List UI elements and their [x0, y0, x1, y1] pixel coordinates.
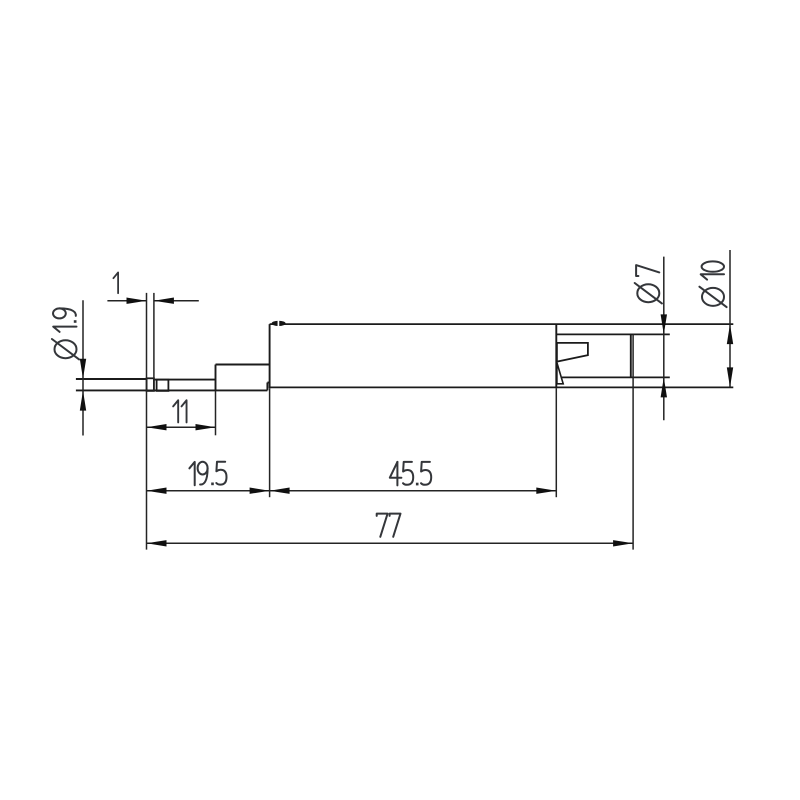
- dimension 19.5 : dimension line and arrows: [147, 490, 270, 492]
- main body right face / connector left face: [555, 324, 557, 388]
- dimension diameter 7 : text: [635, 265, 662, 303]
- body and connector top outline (with diameter-10 extension): [270, 323, 734, 325]
- connector bore right face: [630, 334, 632, 377]
- extension line at part start x=146.5 (dims 1, 11, 19.5, 77): [146, 293, 148, 550]
- tip collar (1 mm ring): [147, 378, 154, 391]
- connector bore bottom line (diameter 7, with extension): [562, 376, 670, 378]
- crimp sleeve behind collar: [157, 380, 169, 391]
- dimension 77 : dimension line and arrows: [147, 542, 634, 544]
- dimension diameter 10 : text: [699, 261, 726, 307]
- neck tube left face: [215, 365, 217, 392]
- connector bore top line (diameter 7, with extension): [556, 333, 670, 335]
- dimension diameter 10 : dimension line and arrows: [729, 250, 731, 387]
- dimension 77 : text: [377, 514, 401, 537]
- dimension 45.5 : text: [390, 462, 431, 486]
- extension line below body left face x=269.6 (dims 19.5/45.5): [269, 388, 271, 497]
- extension line at part right end x=633.1 (dim 77): [632, 334, 634, 549]
- neck-to-body notch horizontal: [267, 382, 269, 384]
- latch tab inside connector: [557, 343, 588, 362]
- dimension diameter 7 : dimension line and arrows: [663, 257, 665, 421]
- main body left face: [269, 324, 271, 388]
- dimension 45.5 : dimension line and arrows: [270, 490, 557, 492]
- neck tube top edge: [216, 364, 270, 366]
- probe tip rod bottom edge: [76, 389, 268, 391]
- dimension diameter 1.9 : text: [52, 308, 79, 359]
- body and connector bottom outline (with diameter-10 extension): [270, 386, 734, 388]
- probe tip rod top edge (left of collar): [76, 378, 147, 380]
- extension line at collar right x=153.9 (dim 1): [153, 293, 155, 391]
- dimension diameter 1.9 : dimension line and arrows: [82, 300, 84, 435]
- probe tip rod top edge (right of collar): [154, 379, 216, 381]
- dimension 1 : leader tails and arrows: [107, 300, 146, 302]
- neck-to-body notch vertical: [266, 383, 268, 391]
- extension line below body right face x=556.3 (dim 45.5): [555, 388, 557, 497]
- dimension 11 : text: [173, 400, 186, 422]
- latch wedge detail: [557, 363, 563, 384]
- dimension 19.5 : text: [189, 462, 226, 486]
- vent hole on body top edge: [272, 321, 286, 326]
- dimension 11 : dimension line and arrows: [147, 426, 216, 428]
- dimension 1 : text: [113, 272, 118, 293]
- extension line below neck left face x=215.5 (dim 11): [215, 391, 217, 435]
